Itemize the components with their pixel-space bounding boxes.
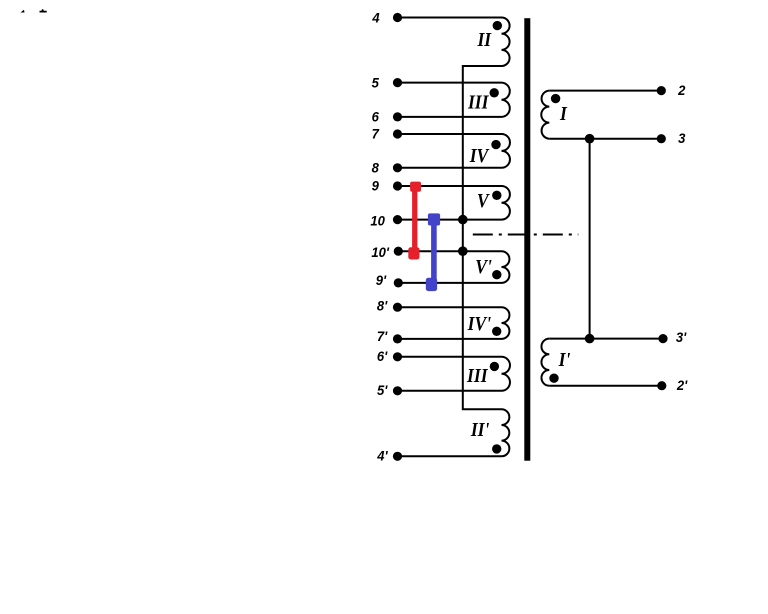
svg-text:2': 2' (676, 377, 688, 393)
svg-text:3: 3 (678, 130, 686, 146)
svg-text:10: 10 (370, 213, 385, 229)
svg-text:V: V (477, 190, 490, 212)
svg-text:7': 7' (377, 329, 388, 345)
svg-text:V': V' (475, 256, 492, 278)
svg-text:I: I (559, 103, 567, 125)
svg-text:6: 6 (372, 109, 380, 125)
svg-text:4': 4' (376, 448, 388, 464)
svg-text:9': 9' (376, 273, 387, 289)
svg-text:8': 8' (377, 298, 388, 314)
svg-text:7: 7 (372, 126, 381, 142)
svg-text:III: III (466, 365, 488, 387)
svg-text:6': 6' (377, 349, 388, 365)
svg-text:III: III (467, 92, 489, 114)
svg-text:2: 2 (677, 82, 686, 98)
svg-text:5': 5' (377, 383, 388, 399)
svg-text:9: 9 (372, 178, 380, 194)
svg-text:IV': IV' (467, 313, 491, 335)
svg-text:I': I' (558, 349, 571, 371)
svg-text:8: 8 (372, 160, 380, 176)
svg-text:II': II' (470, 419, 490, 441)
svg-text:II: II (477, 29, 492, 51)
svg-text:5: 5 (372, 75, 380, 91)
svg-text:4: 4 (371, 10, 380, 26)
svg-text:10': 10' (371, 245, 389, 261)
svg-text:IV: IV (469, 145, 490, 167)
svg-text:3': 3' (676, 329, 687, 345)
